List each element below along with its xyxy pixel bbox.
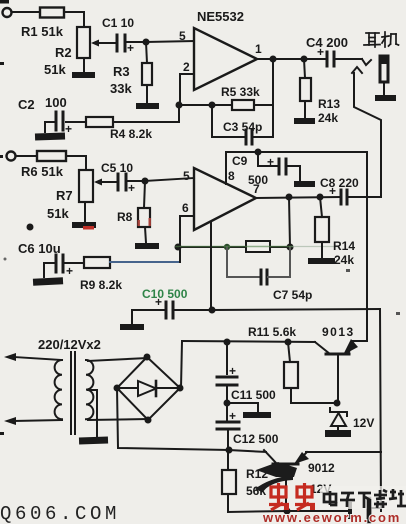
- wiper arrow R2: [94, 42, 103, 44]
- wire raw supply row: [182, 341, 315, 342]
- ground (C2): [35, 132, 65, 140]
- svg-text:R1 51k: R1 51k: [21, 24, 64, 39]
- capacitor C1: [103, 42, 115, 44]
- node D junction (R13 top): [301, 56, 308, 63]
- node O junction (R11 top): [285, 339, 292, 346]
- svg-text:C3 54p: C3 54p: [223, 120, 262, 134]
- wire U1A output: [257, 58, 304, 60]
- headphone plug: [362, 59, 371, 65]
- wire bottom rail: [287, 510, 347, 512]
- ground (zener): [325, 430, 351, 437]
- svg-text:8: 8: [228, 169, 235, 183]
- transformer primary winding: [55, 360, 62, 419]
- wire node F to pin 5 (U1B): [145, 178, 194, 181]
- capacitor C10: [132, 310, 164, 324]
- ground (R3): [136, 103, 159, 109]
- transistor Q2 9012: [273, 463, 298, 466]
- svg-text:R9 8.2k: R9 8.2k: [80, 278, 122, 292]
- wire R9 to node J (blue tinted): [110, 261, 180, 263]
- node bridge right: [177, 385, 184, 392]
- wiper arrow R7: [97, 181, 104, 183]
- svg-text:R11 5.6k: R11 5.6k: [248, 325, 296, 339]
- node E junction (C3 left): [209, 102, 216, 109]
- wire pin 4 drop (U1B): [210, 222, 212, 310]
- svg-text:R8: R8: [117, 210, 133, 224]
- watermark backing halo: [320, 486, 406, 509]
- battery B1 12V: [348, 504, 352, 517]
- node L junction (C7 right): [287, 244, 294, 251]
- svg-text:+: +: [267, 155, 274, 169]
- speck near C8: [346, 269, 350, 272]
- wire J1 to R1: [12, 11, 41, 13]
- wire 9012 collector row: [229, 450, 266, 452]
- wire pin 8 riser: [225, 152, 227, 184]
- svg-text:+: +: [66, 264, 73, 278]
- wire U1B output row: [256, 197, 340, 198]
- ground (jack): [375, 95, 396, 101]
- resistor R1: [40, 8, 64, 18]
- svg-text:C1 10: C1 10: [102, 16, 134, 30]
- edge mark left 3: [0, 432, 4, 435]
- svg-text:R6 51k: R6 51k: [21, 164, 64, 179]
- capacitor C12: [226, 403, 228, 422]
- svg-text:24k: 24k: [334, 253, 354, 267]
- wire R2 bottom: [83, 58, 85, 72]
- resistor R3: [146, 42, 147, 63]
- ground (R7): [72, 222, 96, 228]
- svg-text:12V: 12V: [353, 416, 374, 430]
- svg-text:220/12Vx2: 220/12Vx2: [38, 337, 101, 352]
- svg-text:100: 100: [45, 95, 67, 110]
- svg-text:9012: 9012: [308, 461, 335, 475]
- input jack J1: [3, 8, 12, 17]
- speck left: [4, 258, 7, 261]
- node J junction: [175, 244, 182, 251]
- ground (C9): [294, 181, 315, 187]
- svg-text:www.eeworm.com: www.eeworm.com: [262, 510, 401, 524]
- svg-text:C2: C2: [18, 97, 35, 112]
- capacitor C6: [55, 255, 58, 272]
- node B junction (feedback U1A): [176, 102, 183, 109]
- wire R4 to C2: [66, 121, 86, 123]
- wire C1 to node A: [126, 41, 146, 43]
- wire V+ rail: [226, 151, 367, 153]
- op-amp U1B: [194, 168, 256, 230]
- capacitor C9: [258, 152, 277, 166]
- svg-text:R14: R14: [333, 239, 355, 253]
- transformer core: [70, 352, 72, 434]
- red mark (R8): [138, 220, 140, 226]
- wire J2 to R6: [16, 155, 38, 157]
- node A junction: [143, 39, 150, 46]
- zener diode D2 12V: [330, 408, 347, 416]
- green watermark line: [176, 246, 292, 248]
- transistor Q1 9013: [326, 353, 349, 356]
- wire feedback rail U1A: [179, 104, 273, 106]
- edge mark top-left: [0, 0, 9, 4]
- node bridge left: [114, 385, 121, 392]
- wire R4 row: [113, 121, 179, 123]
- svg-text:R5 33k: R5 33k: [221, 85, 260, 99]
- svg-text:+: +: [65, 122, 72, 136]
- op-amp U1A: [194, 28, 257, 90]
- bridge rectifier: [117, 357, 180, 420]
- ground (R2): [72, 72, 95, 78]
- ground (center tap): [79, 436, 108, 444]
- wire output row to C4: [304, 58, 325, 60]
- capacitor C3: [212, 105, 245, 137]
- wire V+ vertical: [352, 152, 367, 341]
- wire pin 2 stub: [180, 74, 194, 105]
- node M junction (C10 row): [209, 307, 216, 314]
- resistor R4: [86, 117, 113, 127]
- resistor R12: [227, 450, 229, 470]
- svg-text:Q606.COM: Q606.COM: [0, 503, 120, 524]
- watermark swoosh logo: [256, 462, 297, 477]
- resistor R6: [37, 151, 66, 161]
- capacitor C11: [226, 342, 228, 374]
- ground (C10): [120, 324, 144, 330]
- wire 9012 emitter row: [306, 451, 381, 453]
- wire pin 6 stub: [180, 216, 194, 247]
- headphone jack: [380, 56, 388, 82]
- watermark 虫虫 (red): [269, 483, 315, 510]
- speck right: [396, 312, 400, 315]
- svg-text:C8 220: C8 220: [320, 176, 359, 190]
- wire R1 to R2 top: [64, 12, 84, 27]
- svg-text:C12 500: C12 500: [233, 432, 279, 446]
- wire feedback drop: [272, 59, 274, 105]
- node S junction (base bottom): [284, 508, 291, 515]
- svg-text:R13: R13: [318, 97, 340, 111]
- wire center tap: [88, 390, 97, 437]
- node F junction: [142, 178, 149, 185]
- wire emitter to V+: [352, 340, 367, 342]
- svg-text:C10 500: C10 500: [142, 287, 188, 301]
- resistor R11: [288, 342, 290, 362]
- node K junction (C7 left): [224, 244, 230, 250]
- wire ground stub: [227, 403, 258, 412]
- svg-text:NE5532: NE5532: [197, 9, 244, 24]
- svg-text:C7 54p: C7 54p: [273, 288, 312, 302]
- node I junction (R14 top): [317, 194, 324, 201]
- battery long plate redraw: [367, 499, 372, 521]
- node bridge top: [144, 354, 151, 361]
- svg-text:C4 200: C4 200: [306, 35, 348, 50]
- ink blob left: [27, 224, 34, 231]
- svg-text:500: 500: [248, 173, 268, 187]
- node Q junction (C12 bottom): [226, 447, 233, 454]
- svg-text:C9: C9: [232, 154, 248, 168]
- resistor R14: [320, 197, 322, 217]
- edge mark left 1: [0, 62, 4, 65]
- svg-text:51k: 51k: [47, 206, 69, 221]
- ground (R14): [308, 258, 335, 264]
- svg-text:R2: R2: [55, 45, 72, 60]
- svg-text:+: +: [128, 181, 135, 195]
- svg-text:24k: 24k: [318, 111, 338, 125]
- wire node A to pin 5: [146, 41, 194, 42]
- wire C6 to R9: [65, 262, 84, 264]
- wire bridge left to bottom row: [117, 388, 229, 450]
- node C junction (output U1A): [270, 56, 277, 63]
- wire feedback drop U1B: [289, 197, 290, 247]
- node G junction (C9 tap): [255, 149, 262, 156]
- svg-text:C11 500: C11 500: [231, 388, 276, 402]
- edge mark left 2: [0, 155, 3, 158]
- potentiometer R7: [79, 170, 93, 202]
- wire feedback rail U1B: [178, 246, 290, 248]
- svg-text:33k: 33k: [110, 81, 132, 96]
- ground (C6): [33, 277, 63, 286]
- capacitor C2: [62, 112, 65, 130]
- potentiometer R2: [77, 27, 90, 58]
- svg-text:R3: R3: [113, 64, 130, 79]
- svg-text:5: 5: [179, 29, 186, 43]
- label 耳机: [364, 32, 399, 47]
- wire secondary top lead: [88, 358, 147, 361]
- wire R4 riser: [178, 105, 180, 122]
- resistor R5: [232, 100, 254, 110]
- resistor R10: [246, 241, 270, 252]
- wire R7 bottom: [84, 202, 86, 222]
- wire secondary bottom lead: [88, 419, 148, 420]
- node bridge bottom: [145, 417, 152, 424]
- red mark (R7 ground): [83, 226, 94, 230]
- svg-text:51k: 51k: [44, 62, 66, 77]
- node N junction (C11 top): [224, 339, 231, 346]
- wire supply row to right: [212, 309, 380, 310]
- resistor R13: [304, 59, 305, 78]
- node P junction (C11 bottom): [224, 400, 231, 407]
- svg-text:2: 2: [183, 60, 190, 74]
- mains lead bottom: [14, 420, 62, 421]
- transformer secondary winding: [86, 360, 93, 419]
- resistor R9: [84, 257, 110, 268]
- svg-text:R7: R7: [56, 188, 73, 203]
- node H junction (feedback tap U1B): [286, 194, 293, 201]
- svg-text:+: +: [127, 41, 134, 55]
- svg-text:R4 8.2k: R4 8.2k: [110, 127, 152, 141]
- svg-text:9013: 9013: [322, 325, 355, 339]
- svg-text:1: 1: [255, 42, 262, 56]
- ground (R8): [135, 243, 159, 249]
- input jack J2: [7, 152, 16, 161]
- wire right rail down: [380, 309, 381, 511]
- svg-text:C6 10u: C6 10u: [18, 241, 61, 256]
- wire C5 to node F: [127, 180, 145, 182]
- svg-text:6: 6: [182, 201, 189, 215]
- svg-text:5: 5: [183, 169, 190, 183]
- bridge diode: [117, 387, 138, 389]
- watermark 电子下载站 (dark): [324, 489, 406, 508]
- capacitor C5: [104, 181, 116, 183]
- resistor R8: [144, 181, 145, 208]
- mains lead top: [14, 357, 62, 360]
- node R junction (zener top): [334, 400, 341, 407]
- ground (C11): [243, 412, 271, 418]
- ground (R13): [294, 118, 315, 124]
- capacitor C7: [227, 247, 260, 277]
- wire R6 to R7: [66, 156, 86, 170]
- wire bridge+ riser: [181, 341, 182, 388]
